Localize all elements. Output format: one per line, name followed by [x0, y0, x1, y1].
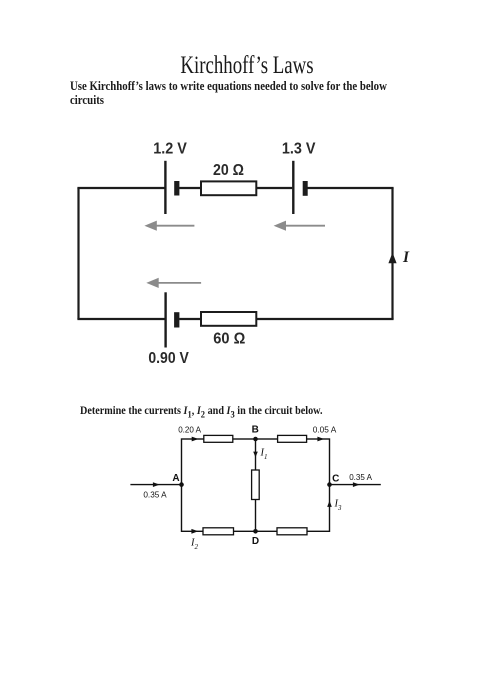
svg-text:60 Ω: 60 Ω [213, 331, 245, 348]
wire: circuit1 bottom, B3 to R2 [179, 318, 202, 320]
current arrow I (up) [388, 253, 396, 264]
gray current arrow under B2 (left) [274, 221, 325, 231]
battery B1 1.2 V [165, 161, 179, 214]
resistor top-right [278, 435, 307, 442]
battery B3 0.90 V [166, 292, 180, 347]
svg-text:0.35 A: 0.35 A [143, 490, 167, 500]
node B [253, 437, 258, 442]
battery B2 1.3 V [293, 161, 307, 214]
wire: circuit2 outer loop [182, 439, 330, 531]
svg-text:I3: I3 [334, 499, 343, 513]
wire: circuit1 bottom, R2 to right corner [256, 318, 393, 320]
svg-text:B: B [252, 425, 259, 436]
svg-text:I2: I2 [190, 538, 199, 552]
wire: circuit1 left side [77, 188, 79, 319]
svg-text:I1: I1 [260, 448, 268, 462]
svg-text:A: A [172, 473, 179, 484]
resistor middle vertical [252, 470, 260, 500]
svg-text:1.3 V: 1.3 V [282, 141, 316, 158]
svg-text:0.35 A: 0.35 A [349, 472, 372, 482]
svg-text:D: D [252, 536, 259, 547]
arrow on output lead (right) [353, 482, 360, 487]
arrow on input lead (right) [153, 482, 160, 487]
gray current arrow under B1 (left) [144, 221, 194, 231]
svg-text:20 Ω: 20 Ω [213, 162, 244, 179]
wire: circuit1 top, R1 to battery B2 [256, 187, 292, 189]
resistor bottom-left [203, 528, 234, 535]
arrow on top-left wire (right) [192, 437, 199, 442]
node D [253, 529, 258, 534]
wire: circuit1 top, B2 to right corner [308, 187, 394, 189]
svg-text:0.20 A: 0.20 A [178, 425, 201, 435]
node A [179, 482, 184, 487]
resistor R1 20 ohm [201, 181, 256, 195]
svg-text:0.05 A: 0.05 A [313, 425, 337, 435]
wire: circuit2 middle branch B to D [255, 439, 257, 531]
wire: circuit2 input lead into node A [130, 484, 181, 486]
svg-text:1.2 V: 1.2 V [153, 141, 187, 158]
resistor bottom-right [277, 528, 307, 535]
arrow on middle branch (down) [253, 452, 258, 458]
svg-text:I: I [402, 249, 410, 266]
svg-text:C: C [332, 474, 339, 485]
arrow on bottom-left wire (right) [191, 529, 198, 534]
resistor R2 60 ohm [201, 312, 256, 326]
arrow on right branch (up) [327, 501, 332, 507]
wire: circuit1 right side [391, 188, 393, 319]
arrow on top-right wire (right) [317, 437, 324, 442]
wire: circuit2 output lead from node C [330, 484, 381, 486]
wire: circuit1 top, left corner to battery B1 [77, 187, 164, 189]
resistor top-left [204, 435, 233, 442]
wire: circuit1 bottom, left corner to battery B3 [77, 318, 164, 320]
wire: circuit1 top, B1 to R1 [179, 187, 202, 189]
svg-text:0.90 V: 0.90 V [148, 350, 189, 367]
gray current arrow above B3 (left) [146, 278, 201, 288]
node C [327, 482, 332, 487]
